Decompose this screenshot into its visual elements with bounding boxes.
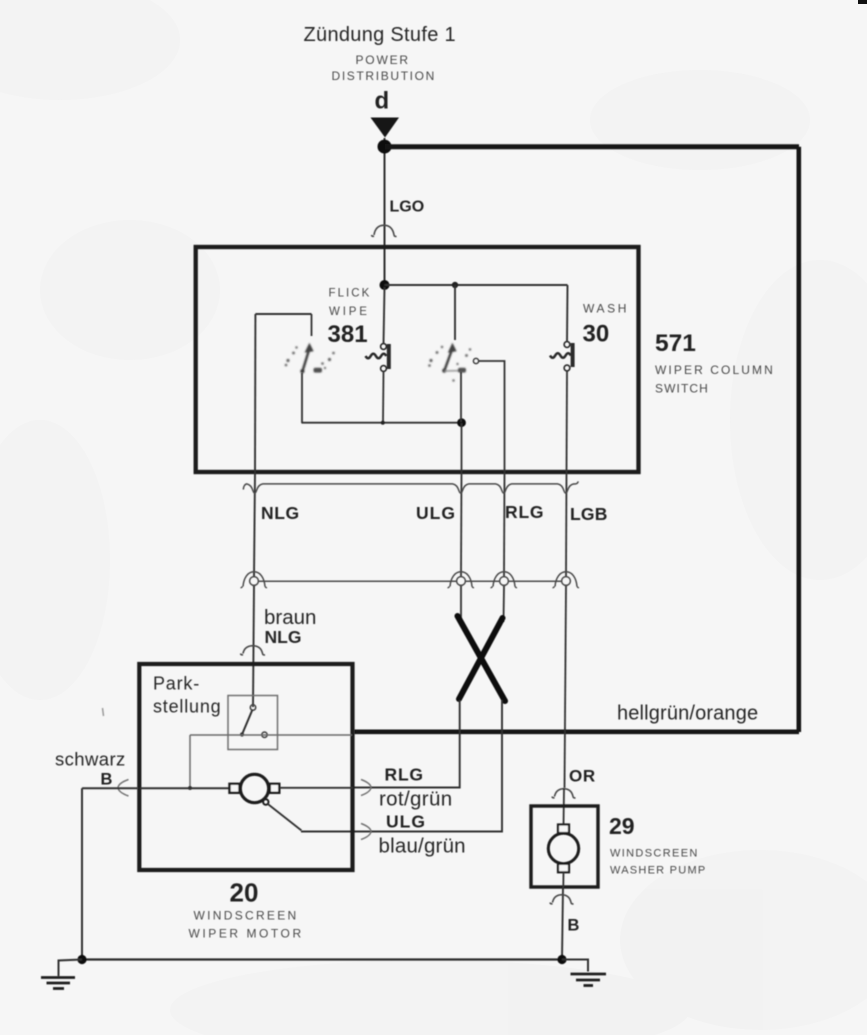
wire motor feed left <box>140 787 230 789</box>
wire bus inside box horizontal <box>385 284 568 286</box>
contact circle wash switch <box>473 358 478 363</box>
svg-text:WIPER MOTOR: WIPER MOTOR <box>189 927 304 941</box>
junction dot left earth <box>77 955 86 964</box>
park switch lever <box>242 710 252 734</box>
svg-text:20: 20 <box>230 878 259 908</box>
wire thick top horizontal <box>385 144 799 149</box>
svg-text:SWITCH: SWITCH <box>655 382 709 396</box>
stray scan tick <box>103 708 104 716</box>
svg-text:WASHER PUMP: WASHER PUMP <box>610 865 706 877</box>
motor third brush terminal <box>263 799 268 804</box>
junction dot inside box <box>380 280 390 290</box>
connector chevron RLG <box>361 780 371 796</box>
wire OR into pump <box>563 788 566 826</box>
wire stub to wiper switch contact <box>454 285 456 340</box>
pump brush top <box>558 825 569 834</box>
earth lead right <box>562 960 588 972</box>
wire park rail horizontal <box>190 734 352 736</box>
wire ULG from crossover to motor <box>301 700 502 832</box>
wire NLG inside box <box>254 314 256 472</box>
wire bottom rail in box <box>302 422 462 424</box>
svg-text:d: d <box>375 88 390 115</box>
resistor flick (squiggle and bar) <box>366 344 389 372</box>
wire RLG inside to right brush <box>280 787 354 789</box>
washer pump box outline <box>531 806 598 887</box>
motor M armature <box>240 774 268 802</box>
svg-text:ULG: ULG <box>386 812 426 832</box>
wire B down left side <box>81 788 83 959</box>
wire stub flick contact <box>311 314 313 336</box>
svg-text:FLICK: FLICK <box>329 288 372 300</box>
svg-text:rot/grün: rot/grün <box>379 788 452 811</box>
junction dot right earth <box>557 955 566 964</box>
svg-text:blau/grün: blau/grün <box>379 835 466 858</box>
wire park rail drop <box>189 735 191 788</box>
crossover X of ULG and RLG <box>458 616 506 701</box>
power feed triangle <box>371 118 400 138</box>
wire thick right vertical hellgrün/orange <box>796 147 801 732</box>
ground symbol left <box>41 978 75 989</box>
svg-text:WINDSCREEN: WINDSCREEN <box>610 848 699 860</box>
wire thick lower horizontal into motor box <box>354 729 799 734</box>
connector chevron ULG <box>361 824 371 840</box>
wire flick pivot down <box>301 373 303 423</box>
wire resistor to bottom rail <box>382 371 385 423</box>
switch wash lever <box>442 343 461 373</box>
wire bus down to wash resistor <box>566 285 569 342</box>
connector chevron on B wire <box>118 780 129 797</box>
junction small <box>381 421 385 425</box>
junction dot bottom rail <box>457 418 466 427</box>
switch flick lever <box>300 343 313 374</box>
svg-text:POWER: POWER <box>356 53 410 67</box>
pump motor armature <box>548 833 578 863</box>
park switch top contact <box>250 705 255 710</box>
connector arc on OR wire <box>552 789 576 798</box>
wire wash pivot down to rail <box>460 372 462 422</box>
wire NLG to motor box <box>253 586 254 708</box>
svg-text:WIPE: WIPE <box>329 306 370 318</box>
svg-text:braun: braun <box>264 606 316 629</box>
svg-text:ULG: ULG <box>416 503 456 523</box>
svg-text:OR: OR <box>569 767 596 786</box>
connector arc on braun wire <box>241 646 266 655</box>
wire LGO vertical from feed to switch box <box>384 138 386 286</box>
switch wash position ticks <box>428 346 471 382</box>
svg-text:stellung: stellung <box>153 697 221 717</box>
svg-text:hellgrün/orange: hellgrün/orange <box>617 703 758 725</box>
resistor wash (squiggle and bar) <box>550 342 573 371</box>
svg-text:NLG: NLG <box>265 627 302 647</box>
svg-text:RLG: RLG <box>385 765 424 785</box>
junction small dot wash wiper feed <box>452 282 458 288</box>
wire RLG from crossover to motor <box>353 700 460 788</box>
earth lead left <box>59 960 83 977</box>
wire ULG down to crossover <box>460 586 462 621</box>
svg-text:Zündung Stufe 1: Zündung Stufe 1 <box>304 24 456 46</box>
wires leaving box to connector row <box>254 472 255 577</box>
wire RLG down to crossover <box>503 586 506 623</box>
svg-text:B: B <box>568 917 580 935</box>
svg-text:NLG: NLG <box>261 503 300 523</box>
svg-text:381: 381 <box>328 321 368 348</box>
corner mark top right <box>858 0 867 4</box>
park switch right contact <box>262 732 267 737</box>
wire LGB down to pump <box>565 586 567 789</box>
svg-text:29: 29 <box>609 813 635 839</box>
ground symbol right <box>571 974 607 986</box>
snap connector row <box>241 572 580 588</box>
wire feed down to flick resistor <box>384 287 385 344</box>
wire RLG inside box down <box>504 423 506 472</box>
wire B horizontal <box>82 787 138 789</box>
svg-text:WIPER COLUMN: WIPER COLUMN <box>655 363 775 377</box>
wire earth rail bottom <box>82 958 562 960</box>
motor brush right <box>270 784 280 793</box>
svg-text:B: B <box>101 771 113 789</box>
switch flick position ticks <box>285 346 335 372</box>
motor box 20 outline <box>139 664 352 870</box>
svg-text:WINDSCREEN: WINDSCREEN <box>194 909 299 923</box>
svg-text:571: 571 <box>655 330 696 357</box>
wire LGB inside box down <box>566 371 569 472</box>
svg-text:WASH: WASH <box>583 302 629 316</box>
junction dot at feed <box>378 140 392 154</box>
svg-text:Park-: Park- <box>153 674 200 694</box>
svg-text:30: 30 <box>583 321 610 348</box>
pump brush bottom <box>558 864 569 873</box>
svg-text:DISTRIBUTION: DISTRIBUTION <box>332 69 436 83</box>
connector arc on LGO wire <box>372 225 397 236</box>
multi plug connector strip under box <box>243 481 578 493</box>
wire left contact horizontal <box>255 313 311 315</box>
svg-text:LGO: LGO <box>390 199 425 216</box>
svg-text:LGB: LGB <box>570 504 608 524</box>
switch box 571 outline <box>196 247 639 472</box>
motor brush left <box>230 784 240 793</box>
wire ULG inside box down <box>461 423 463 472</box>
wire third brush diagonal <box>268 804 302 831</box>
wire wash contact to RLG drop <box>479 361 505 423</box>
wire pump to ground rail <box>562 887 563 960</box>
connector arc below pump <box>550 895 574 904</box>
svg-text:RLG: RLG <box>505 502 544 522</box>
park switch enclosure <box>228 696 278 750</box>
wire pump inner lower <box>562 872 564 887</box>
svg-text:schwarz: schwarz <box>55 749 126 770</box>
